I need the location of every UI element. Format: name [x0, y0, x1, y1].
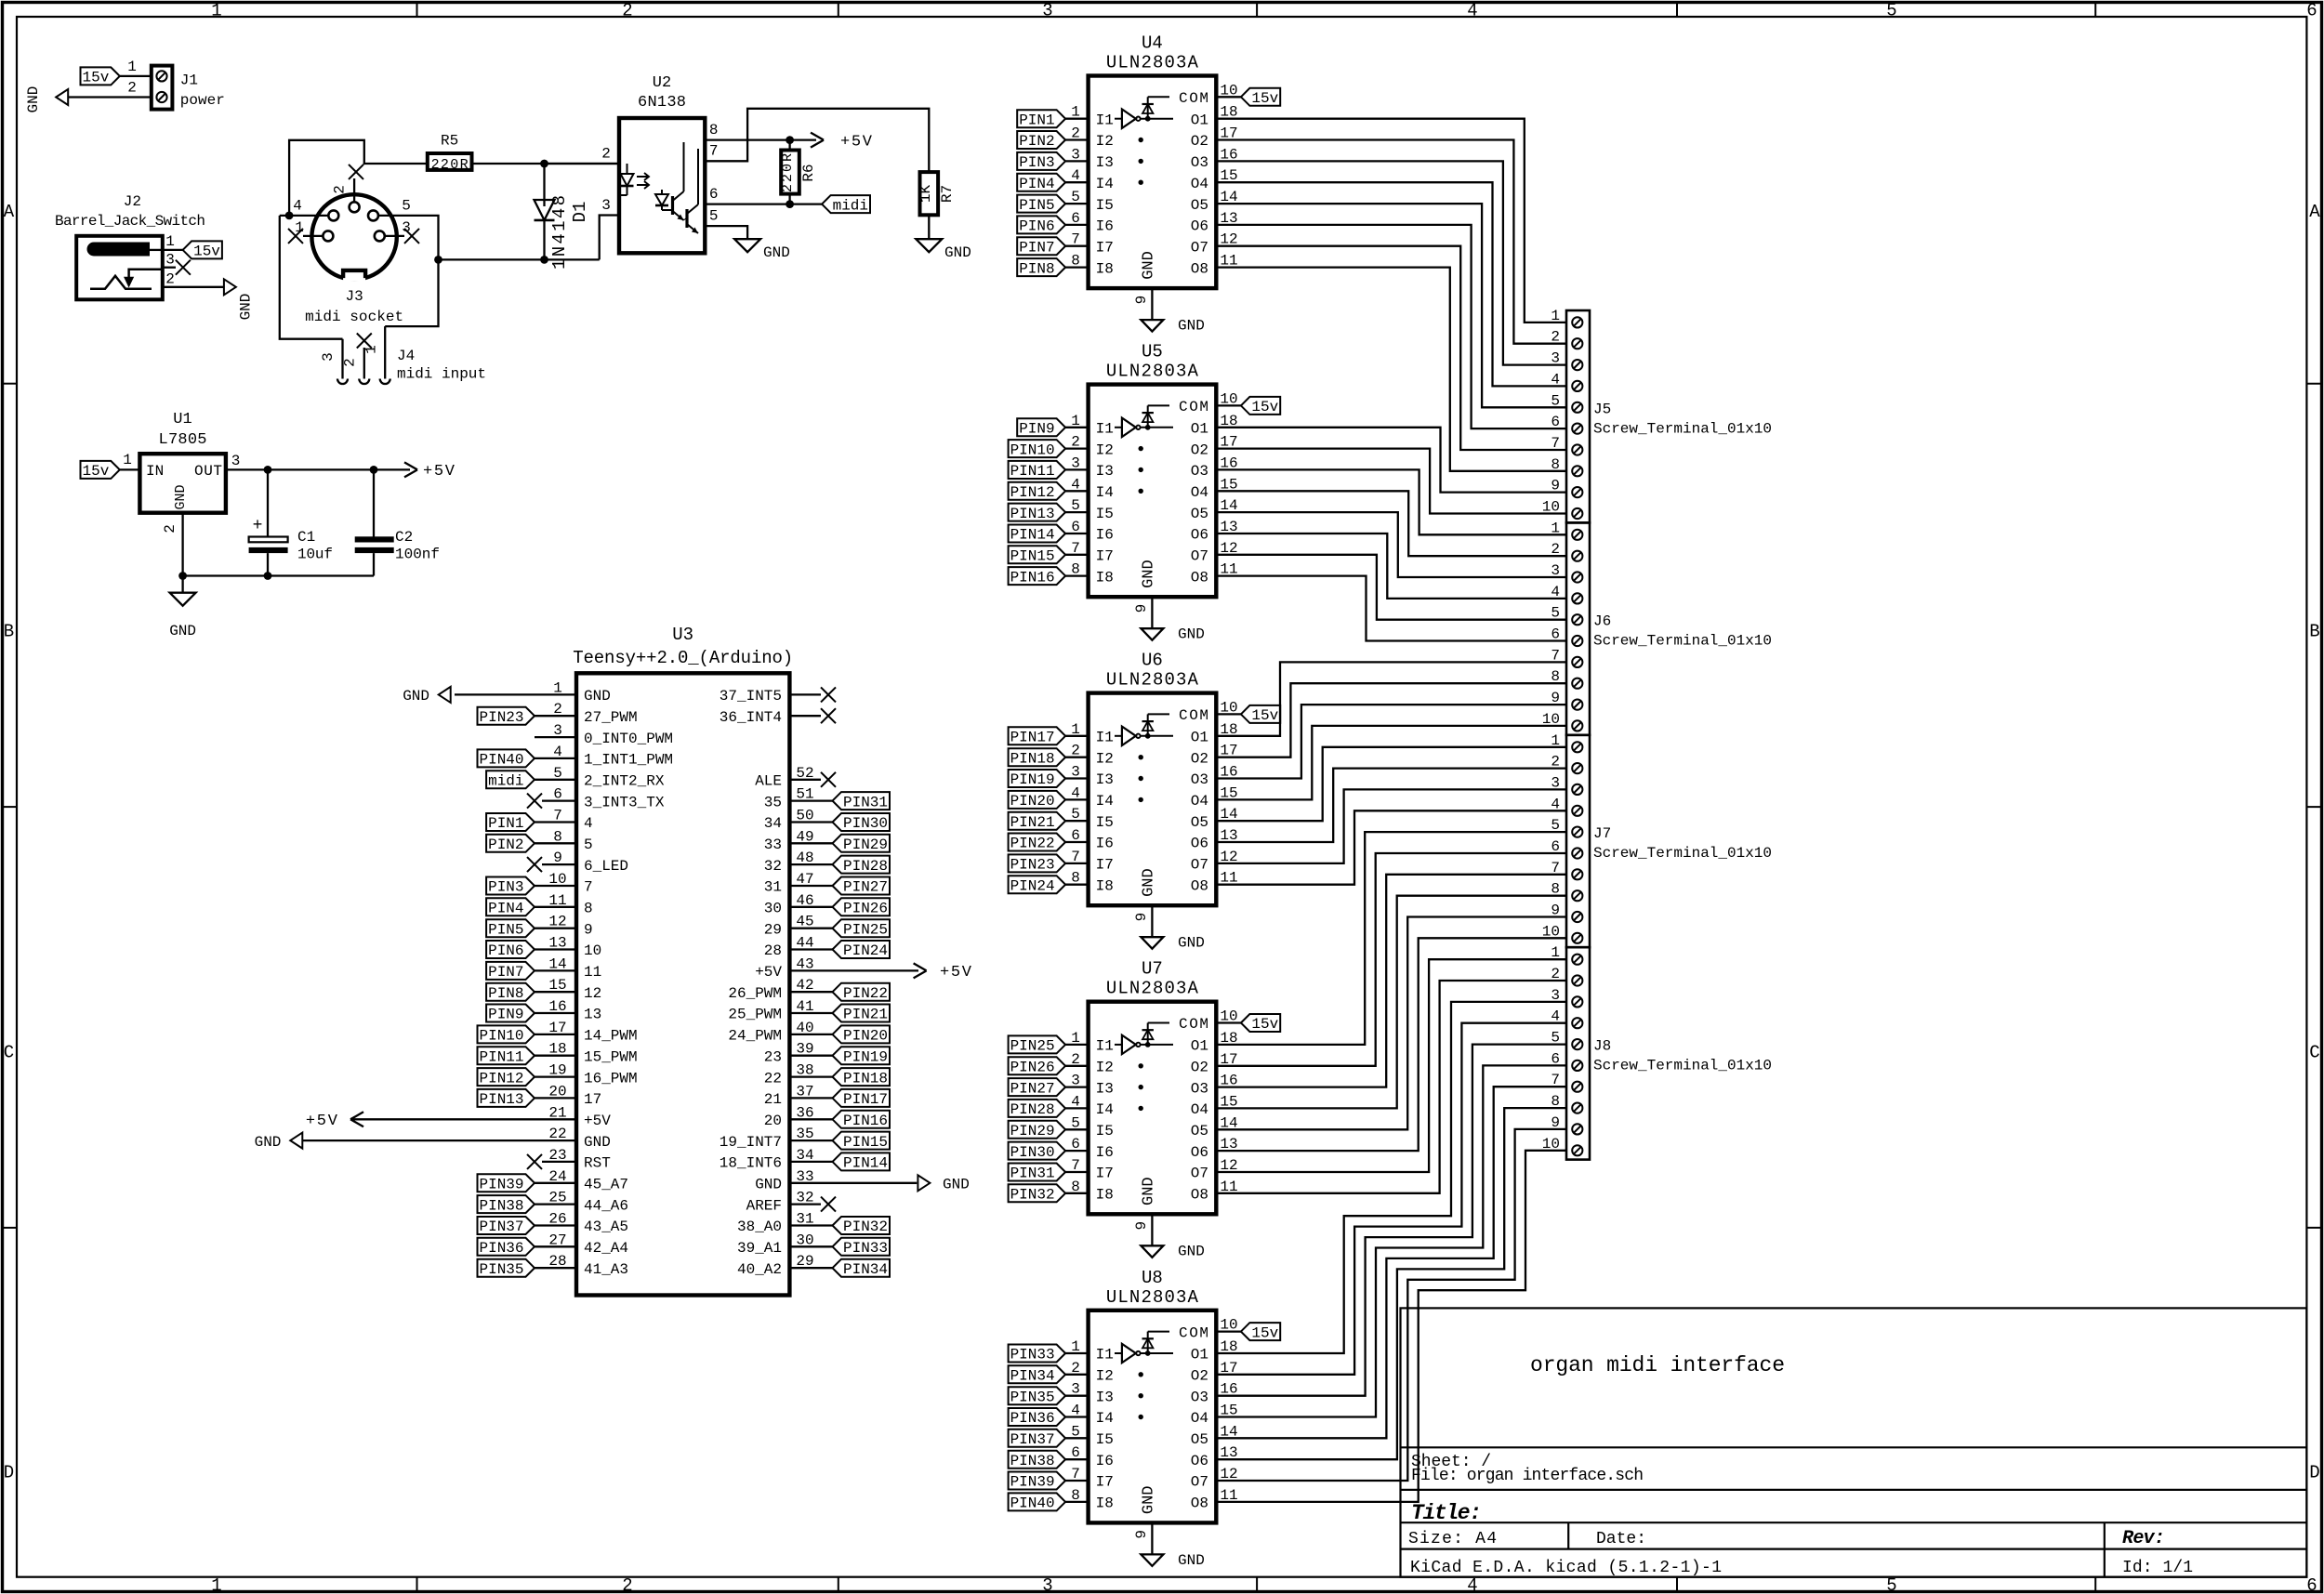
svg-text:15v: 15v: [1251, 1324, 1278, 1341]
svg-text:O6: O6: [1191, 1453, 1208, 1469]
svg-text:I1: I1: [1096, 112, 1114, 128]
svg-text:2: 2: [1071, 434, 1080, 451]
svg-text:R6: R6: [800, 164, 817, 181]
svg-text:Screw_Terminal_01x10: Screw_Terminal_01x10: [1593, 845, 1772, 862]
svg-text:AREF: AREF: [746, 1197, 782, 1214]
svg-text:D1: D1: [570, 202, 590, 223]
svg-text:8: 8: [1071, 1487, 1080, 1504]
svg-text:I8: I8: [1096, 1495, 1114, 1512]
svg-text:33: 33: [764, 837, 782, 853]
svg-text:8: 8: [1071, 253, 1080, 270]
svg-text:GND: GND: [403, 688, 429, 705]
svg-text:PIN38: PIN38: [479, 1197, 523, 1214]
svg-text:PIN20: PIN20: [843, 1028, 888, 1045]
svg-text:PIN31: PIN31: [843, 794, 888, 810]
svg-text:13: 13: [584, 1007, 601, 1023]
svg-text:220R: 220R: [780, 153, 796, 192]
svg-text:PIN6: PIN6: [1019, 218, 1054, 235]
svg-text:1: 1: [211, 1, 221, 21]
svg-text:1: 1: [123, 452, 132, 468]
svg-text:O5: O5: [1191, 1123, 1208, 1140]
svg-text:7: 7: [1071, 1157, 1080, 1174]
svg-text:26_PWM: 26_PWM: [728, 985, 782, 1002]
svg-text:O7: O7: [1191, 548, 1208, 565]
svg-text:20: 20: [764, 1113, 782, 1129]
svg-text:O8: O8: [1191, 569, 1208, 586]
svg-text:PIN16: PIN16: [843, 1113, 888, 1129]
svg-text:PIN4: PIN4: [1019, 176, 1054, 192]
svg-text:I1: I1: [1096, 421, 1114, 438]
svg-text:1K: 1K: [918, 185, 934, 204]
svg-text:5: 5: [1071, 497, 1080, 514]
svg-text:U1: U1: [173, 411, 191, 428]
svg-text:5: 5: [584, 837, 593, 853]
svg-text:I7: I7: [1096, 239, 1114, 256]
svg-text:PIN39: PIN39: [479, 1177, 523, 1193]
svg-text:7: 7: [1071, 231, 1080, 248]
svg-text:PIN35: PIN35: [479, 1261, 523, 1278]
svg-text:R7: R7: [939, 185, 956, 203]
svg-text:7: 7: [709, 143, 719, 160]
svg-text:Barrel_Jack_Switch: Barrel_Jack_Switch: [55, 213, 205, 230]
svg-text:PIN25: PIN25: [843, 921, 888, 938]
svg-text:B: B: [2309, 622, 2319, 642]
svg-text:I4: I4: [1096, 1410, 1114, 1427]
svg-text:2: 2: [1071, 125, 1080, 142]
svg-text:2: 2: [622, 1, 632, 21]
svg-text:O3: O3: [1191, 463, 1208, 480]
svg-text:PIN2: PIN2: [488, 837, 523, 853]
svg-text:PIN36: PIN36: [1010, 1410, 1055, 1427]
svg-text:15v: 15v: [82, 70, 109, 86]
svg-text:PIN6: PIN6: [488, 942, 523, 959]
svg-text:3: 3: [1071, 146, 1080, 163]
svg-text:45_A7: 45_A7: [584, 1177, 628, 1193]
svg-text:I7: I7: [1096, 857, 1114, 874]
svg-text:PIN17: PIN17: [1010, 730, 1055, 746]
svg-text:15v: 15v: [1251, 1016, 1278, 1033]
svg-text:I6: I6: [1096, 527, 1114, 544]
svg-text:File: organ interface.sch: File: organ interface.sch: [1411, 1467, 1644, 1485]
svg-text:5: 5: [709, 208, 719, 225]
svg-text:+5V: +5V: [306, 1113, 338, 1130]
svg-text:D: D: [4, 1463, 14, 1483]
svg-text:6: 6: [1071, 519, 1080, 535]
svg-text:PIN38: PIN38: [1010, 1453, 1055, 1469]
svg-text:I6: I6: [1096, 836, 1114, 852]
svg-text:21: 21: [764, 1091, 782, 1108]
svg-text:29: 29: [764, 921, 782, 938]
svg-text:O1: O1: [1191, 112, 1208, 128]
svg-text:PIN22: PIN22: [1010, 836, 1055, 852]
svg-text:O4: O4: [1191, 1101, 1208, 1118]
svg-text:PIN28: PIN28: [1010, 1101, 1055, 1118]
svg-text:GND: GND: [1178, 1244, 1205, 1260]
svg-text:ULN2803A: ULN2803A: [1106, 1287, 1199, 1308]
svg-text:I5: I5: [1096, 506, 1114, 522]
svg-text:I1: I1: [1096, 1347, 1114, 1363]
svg-text:PIN19: PIN19: [843, 1048, 888, 1065]
svg-text:7: 7: [1071, 849, 1080, 865]
svg-text:PIN5: PIN5: [1019, 197, 1054, 214]
svg-text:PIN32: PIN32: [843, 1219, 888, 1235]
svg-text:1: 1: [1071, 413, 1080, 429]
svg-text:2: 2: [342, 358, 359, 367]
svg-text:midi input: midi input: [397, 366, 486, 383]
svg-text:J1: J1: [180, 72, 198, 88]
svg-text:4: 4: [1071, 784, 1080, 801]
svg-text:I2: I2: [1096, 133, 1114, 150]
svg-text:J5: J5: [1593, 401, 1611, 417]
svg-text:O1: O1: [1191, 1038, 1208, 1055]
svg-text:I5: I5: [1096, 1431, 1114, 1448]
svg-text:3: 3: [1071, 1381, 1080, 1398]
svg-text:PIN14: PIN14: [1010, 527, 1055, 544]
svg-text:PIN30: PIN30: [843, 815, 888, 832]
svg-text:O7: O7: [1191, 857, 1208, 874]
svg-text:PIN3: PIN3: [1019, 154, 1054, 171]
svg-text:PIN18: PIN18: [843, 1070, 888, 1087]
svg-text:PIN10: PIN10: [1010, 441, 1055, 458]
svg-text:GND: GND: [1178, 1552, 1205, 1569]
svg-text:PIN15: PIN15: [843, 1134, 888, 1151]
svg-text:J8: J8: [1593, 1038, 1611, 1055]
svg-text:5: 5: [1071, 1114, 1080, 1131]
svg-text:PIN37: PIN37: [1010, 1431, 1055, 1448]
svg-text:PIN7: PIN7: [1019, 239, 1054, 256]
svg-text:I4: I4: [1096, 793, 1114, 810]
svg-text:4: 4: [1467, 1575, 1477, 1594]
svg-text:O2: O2: [1191, 441, 1208, 458]
svg-text:I7: I7: [1096, 548, 1114, 565]
svg-text:22: 22: [764, 1070, 782, 1087]
svg-text:O8: O8: [1191, 260, 1208, 277]
svg-text:2: 2: [331, 185, 348, 194]
svg-text:3: 3: [1071, 454, 1080, 471]
svg-text:4: 4: [293, 197, 302, 214]
svg-text:GND: GND: [169, 623, 196, 639]
svg-text:GND: GND: [237, 294, 254, 321]
svg-text:O1: O1: [1191, 421, 1208, 438]
svg-text:4: 4: [1071, 167, 1080, 184]
svg-text:4: 4: [1071, 1403, 1080, 1419]
svg-text:O3: O3: [1191, 771, 1208, 788]
svg-text:PIN15: PIN15: [1010, 548, 1055, 565]
svg-text:3: 3: [601, 197, 611, 214]
svg-text:PIN29: PIN29: [1010, 1123, 1055, 1140]
svg-text:9: 9: [1133, 913, 1150, 922]
svg-text:OUT: OUT: [194, 463, 222, 480]
svg-text:I3: I3: [1096, 1389, 1114, 1405]
svg-text:9: 9: [1133, 1530, 1150, 1539]
svg-text:J6: J6: [1593, 613, 1611, 630]
svg-text:1: 1: [127, 59, 137, 75]
svg-text:PIN5: PIN5: [488, 921, 523, 938]
svg-text:GND: GND: [943, 1177, 970, 1193]
svg-text:ULN2803A: ULN2803A: [1106, 979, 1199, 999]
svg-text:1_INT1_PWM: 1_INT1_PWM: [584, 752, 673, 769]
svg-text:O1: O1: [1191, 730, 1208, 746]
svg-text:7: 7: [1071, 1466, 1080, 1482]
svg-text:R5: R5: [441, 133, 458, 150]
svg-text:PIN26: PIN26: [1010, 1060, 1055, 1076]
svg-text:+5V: +5V: [423, 463, 456, 481]
svg-text:3: 3: [1071, 1073, 1080, 1089]
svg-text:PIN4: PIN4: [488, 901, 523, 917]
svg-text:9: 9: [1133, 1221, 1150, 1231]
svg-text:4: 4: [1071, 476, 1080, 493]
svg-text:5: 5: [1071, 1423, 1080, 1440]
svg-text:PIN33: PIN33: [843, 1240, 888, 1257]
svg-text:Date:: Date:: [1596, 1530, 1646, 1548]
svg-text:10: 10: [1220, 699, 1237, 716]
svg-text:10: 10: [584, 942, 601, 959]
svg-text:O8: O8: [1191, 1187, 1208, 1204]
svg-text:5: 5: [1071, 806, 1080, 823]
svg-text:PIN22: PIN22: [843, 985, 888, 1002]
svg-text:PIN21: PIN21: [843, 1007, 888, 1023]
svg-text:9: 9: [584, 921, 593, 938]
svg-text:3: 3: [320, 352, 337, 362]
svg-text:COM: COM: [1179, 707, 1208, 724]
svg-text:GND: GND: [1178, 318, 1205, 335]
svg-text:midi: midi: [833, 197, 868, 214]
svg-text:41_A3: 41_A3: [584, 1261, 628, 1278]
svg-text:PIN34: PIN34: [1010, 1368, 1055, 1385]
svg-text:Rev:: Rev:: [2122, 1528, 2165, 1549]
svg-text:39_A1: 39_A1: [737, 1240, 782, 1257]
svg-text:GND: GND: [1178, 935, 1205, 952]
svg-text:3: 3: [165, 252, 175, 269]
svg-text:I7: I7: [1096, 1166, 1114, 1182]
svg-text:GND: GND: [584, 688, 611, 705]
svg-text:I2: I2: [1096, 750, 1114, 767]
svg-text:O2: O2: [1191, 133, 1208, 150]
svg-text:3: 3: [402, 219, 411, 236]
svg-text:C2: C2: [395, 529, 413, 546]
svg-text:O6: O6: [1191, 1144, 1208, 1161]
svg-text:PIN28: PIN28: [843, 858, 888, 875]
svg-text:27_PWM: 27_PWM: [584, 709, 638, 726]
svg-text:6: 6: [1071, 1136, 1080, 1153]
svg-text:10: 10: [1220, 82, 1237, 99]
svg-text:GND: GND: [1140, 1485, 1157, 1514]
svg-text:U5: U5: [1142, 342, 1163, 362]
svg-text:organ midi interface: organ midi interface: [1530, 1353, 1785, 1377]
svg-text:I8: I8: [1096, 569, 1114, 586]
svg-text:9: 9: [1133, 296, 1150, 305]
svg-text:23: 23: [764, 1048, 782, 1065]
svg-text:38_A0: 38_A0: [737, 1219, 782, 1235]
svg-text:PIN33: PIN33: [1010, 1347, 1055, 1363]
svg-text:15v: 15v: [193, 244, 220, 260]
svg-text:GND: GND: [1140, 251, 1157, 280]
svg-text:O3: O3: [1191, 154, 1208, 171]
svg-text:PIN37: PIN37: [479, 1219, 523, 1235]
svg-text:1: 1: [1071, 1030, 1080, 1047]
svg-text:I8: I8: [1096, 260, 1114, 277]
svg-text:PIN35: PIN35: [1010, 1389, 1055, 1405]
svg-text:I8: I8: [1096, 1187, 1114, 1204]
svg-text:6: 6: [1071, 1444, 1080, 1461]
svg-text:I2: I2: [1096, 441, 1114, 458]
svg-text:O8: O8: [1191, 1495, 1208, 1512]
svg-text:Screw_Terminal_01x10: Screw_Terminal_01x10: [1593, 420, 1772, 437]
svg-text:+5V: +5V: [940, 964, 972, 981]
svg-text:PIN24: PIN24: [1010, 877, 1055, 894]
svg-text:PIN1: PIN1: [1019, 112, 1054, 128]
svg-text:O6: O6: [1191, 836, 1208, 852]
svg-text:I6: I6: [1096, 218, 1114, 235]
svg-text:15v: 15v: [82, 463, 109, 480]
svg-text:O4: O4: [1191, 1410, 1208, 1427]
svg-text:3: 3: [1071, 764, 1080, 781]
svg-text:5: 5: [1886, 1, 1896, 21]
svg-text:GND: GND: [25, 86, 42, 113]
svg-text:PIN24: PIN24: [843, 942, 888, 959]
svg-text:PIN30: PIN30: [1010, 1144, 1055, 1161]
svg-text:24_PWM: 24_PWM: [728, 1028, 782, 1045]
svg-text:PIN13: PIN13: [1010, 506, 1055, 522]
svg-text:PIN16: PIN16: [1010, 569, 1055, 586]
svg-text:8: 8: [1071, 870, 1080, 887]
svg-text:1: 1: [165, 233, 175, 250]
svg-text:ULN2803A: ULN2803A: [1106, 53, 1199, 73]
svg-text:18_INT6: 18_INT6: [720, 1155, 782, 1172]
svg-text:30: 30: [764, 901, 782, 917]
svg-text:6N138: 6N138: [638, 94, 686, 112]
svg-text:6: 6: [709, 186, 719, 203]
svg-text:O4: O4: [1191, 484, 1208, 501]
svg-text:U6: U6: [1142, 651, 1163, 671]
svg-text:O2: O2: [1191, 750, 1208, 767]
svg-text:O2: O2: [1191, 1060, 1208, 1076]
svg-text:14_PWM: 14_PWM: [584, 1028, 638, 1045]
svg-text:O4: O4: [1191, 793, 1208, 810]
svg-text:6: 6: [1071, 210, 1080, 227]
svg-text:19_INT7: 19_INT7: [720, 1134, 782, 1151]
svg-text:PIN23: PIN23: [479, 709, 523, 726]
svg-text:O3: O3: [1191, 1080, 1208, 1097]
svg-text:PIN18: PIN18: [1010, 750, 1055, 767]
svg-text:GND: GND: [763, 244, 790, 261]
svg-text:8: 8: [1071, 1179, 1080, 1195]
svg-text:2: 2: [127, 80, 137, 97]
svg-text:7: 7: [1071, 540, 1080, 557]
svg-text:L7805: L7805: [159, 431, 207, 449]
svg-text:15v: 15v: [1251, 90, 1278, 107]
svg-text:O2: O2: [1191, 1368, 1208, 1385]
svg-text:I6: I6: [1096, 1144, 1114, 1161]
svg-text:+5V: +5V: [584, 1113, 611, 1129]
svg-text:PIN11: PIN11: [479, 1048, 523, 1065]
svg-text:PIN9: PIN9: [1019, 421, 1054, 438]
svg-text:PIN27: PIN27: [843, 879, 888, 896]
svg-text:GND: GND: [173, 484, 189, 509]
svg-text:B: B: [4, 622, 14, 642]
svg-text:PIN17: PIN17: [843, 1091, 888, 1108]
svg-text:PIN2: PIN2: [1019, 133, 1054, 150]
svg-text:7: 7: [584, 879, 593, 896]
svg-text:4: 4: [1071, 1093, 1080, 1110]
svg-text:4: 4: [584, 815, 593, 832]
svg-text:A: A: [2309, 202, 2320, 222]
svg-text:U2: U2: [653, 74, 671, 92]
svg-text:GND: GND: [755, 1177, 782, 1193]
svg-text:I1: I1: [1096, 730, 1114, 746]
svg-text:+5V: +5V: [755, 964, 782, 981]
svg-text:power: power: [180, 92, 225, 109]
svg-text:10uf: 10uf: [297, 547, 333, 563]
svg-text:1: 1: [1071, 721, 1080, 738]
svg-text:1: 1: [211, 1575, 221, 1594]
svg-text:C: C: [4, 1043, 14, 1063]
svg-text:I4: I4: [1096, 484, 1114, 501]
svg-text:PIN40: PIN40: [1010, 1495, 1055, 1512]
svg-text:I5: I5: [1096, 814, 1114, 831]
svg-text:17: 17: [584, 1091, 601, 1108]
svg-text:A: A: [4, 202, 15, 222]
svg-text:PIN20: PIN20: [1010, 793, 1055, 810]
svg-text:PIN11: PIN11: [1010, 463, 1055, 480]
svg-text:15v: 15v: [1251, 707, 1278, 724]
svg-text:32: 32: [764, 858, 782, 875]
svg-text:COM: COM: [1179, 399, 1208, 415]
svg-text:Title:: Title:: [1411, 1501, 1482, 1525]
svg-text:PIN8: PIN8: [488, 985, 523, 1002]
svg-text:16_PWM: 16_PWM: [584, 1070, 638, 1087]
svg-text:PIN31: PIN31: [1010, 1166, 1055, 1182]
svg-text:GND: GND: [1140, 868, 1157, 897]
svg-text:15_PWM: 15_PWM: [584, 1048, 638, 1065]
svg-text:6: 6: [2306, 1, 2317, 21]
svg-text:Size: A4: Size: A4: [1408, 1530, 1497, 1548]
svg-text:U7: U7: [1142, 959, 1163, 980]
svg-text:O5: O5: [1191, 814, 1208, 831]
svg-text:3_INT3_TX: 3_INT3_TX: [584, 794, 665, 810]
svg-text:I5: I5: [1096, 1123, 1114, 1140]
svg-text:ALE: ALE: [755, 773, 782, 790]
svg-text:GND: GND: [1178, 626, 1205, 643]
svg-text:31: 31: [764, 879, 782, 896]
svg-text:1: 1: [1071, 1338, 1080, 1355]
svg-text:O5: O5: [1191, 1431, 1208, 1448]
svg-text:PIN7: PIN7: [488, 964, 523, 981]
svg-text:2: 2: [162, 524, 178, 534]
svg-text:5: 5: [402, 197, 411, 214]
svg-text:GND: GND: [1140, 1177, 1157, 1205]
svg-text:J2: J2: [124, 193, 141, 210]
svg-text:midi: midi: [488, 773, 523, 790]
svg-text:PIN13: PIN13: [479, 1091, 523, 1108]
svg-text:3: 3: [1042, 1575, 1052, 1594]
svg-text:PIN39: PIN39: [1010, 1474, 1055, 1491]
svg-text:+: +: [253, 517, 263, 535]
svg-text:44_A6: 44_A6: [584, 1197, 628, 1214]
svg-text:PIN25: PIN25: [1010, 1038, 1055, 1055]
svg-text:Teensy++2.0_(Arduino): Teensy++2.0_(Arduino): [573, 648, 793, 668]
svg-text:I2: I2: [1096, 1368, 1114, 1385]
svg-text:10: 10: [1220, 1317, 1237, 1334]
svg-text:GND: GND: [584, 1134, 611, 1151]
svg-text:IN: IN: [146, 463, 164, 480]
svg-text:2: 2: [1071, 743, 1080, 759]
svg-text:28: 28: [764, 942, 782, 959]
svg-text:25_PWM: 25_PWM: [728, 1007, 782, 1023]
svg-text:6: 6: [2306, 1575, 2317, 1594]
svg-text:10: 10: [1220, 1008, 1237, 1025]
svg-text:midi socket: midi socket: [305, 309, 403, 325]
